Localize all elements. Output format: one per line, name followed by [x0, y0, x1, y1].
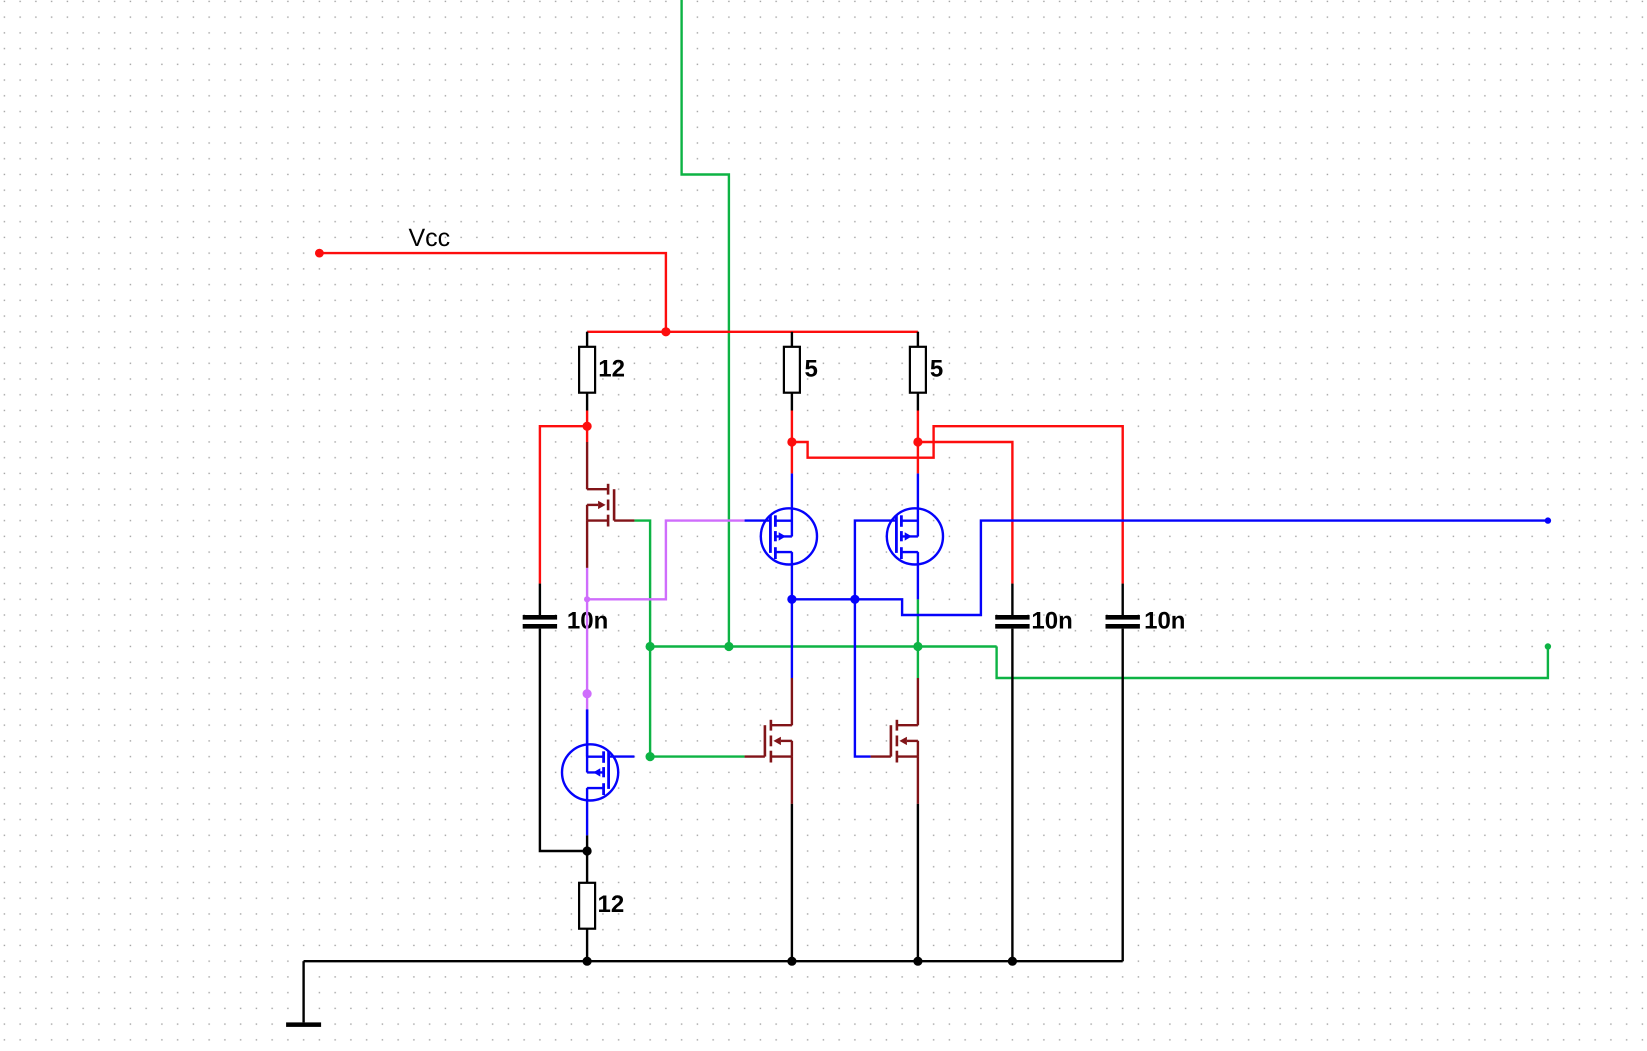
wire: R2 bottom stub: [791, 393, 793, 411]
transistor M4 p-mosfet circled (blue, mirrored): [562, 709, 634, 835]
wire: M5 source to ground rail: [791, 804, 793, 961]
wire: C3 bottom stem joins ground rail: [1121, 629, 1123, 962]
wire: M6 source to ground rail: [917, 804, 919, 961]
wire: blue M1 source to output step to right edge: [792, 521, 1548, 615]
wire: green step to right edge output: [997, 647, 1548, 679]
wire: blue M2 gate bus down to M6 gate: [855, 521, 897, 757]
transistor Q1 n-mosfet (maroon, gate right): [587, 442, 634, 568]
transistor M1 p-mosfet circled (blue): [745, 474, 817, 600]
wire: green input from top edge down and over to node column: [682, 0, 729, 647]
junction green gate bus / M5 gate: [646, 752, 655, 761]
transistor M2 p-mosfet circled (blue): [887, 474, 943, 600]
junction C1 / R4 / M4: [583, 846, 592, 855]
junction blue gate bus: [850, 595, 859, 604]
node blue output terminal: [1545, 517, 1551, 523]
wire: R4 top stub: [586, 851, 588, 883]
wire: blue M1 source node down to M5 drain: [791, 599, 793, 678]
node B junction (R2/M1): [787, 437, 796, 446]
wire: R4 bottom stub: [586, 929, 588, 962]
wire: ground rail: [304, 960, 1123, 962]
wire: C2 top stem: [1011, 584, 1013, 615]
resistor R2 (5): [784, 347, 800, 393]
wire: R3 bottom stub: [917, 393, 919, 411]
junction M5 / ground rail: [787, 957, 796, 966]
resistor R4 (12): [579, 883, 595, 929]
wire: node B to M1 drain stub: [791, 442, 793, 473]
wire: R1 bottom stub: [586, 393, 588, 411]
wire: C2 bottom stem: [1011, 629, 1013, 962]
capacitor C2 (10n): [995, 615, 1029, 620]
transistor M5 n-mosfet (maroon): [745, 678, 792, 804]
junction violet wire joint: [583, 689, 592, 698]
ground symbol: [302, 961, 304, 1022]
junction Vcc corner: [661, 327, 670, 336]
wire: R2 bottom to node B: [791, 411, 793, 443]
wire: C1 top stem: [539, 584, 541, 615]
junction green gate bus / rail: [646, 642, 655, 651]
wire: R1 top stub: [586, 332, 588, 347]
wire: violet Q1 source node down: [586, 568, 588, 694]
resistor R3 (5): [910, 347, 926, 393]
wire: R3 bottom to node C: [917, 411, 919, 443]
node Vcc terminal dot: [315, 249, 324, 258]
svg-text:Vcc: Vcc: [409, 224, 451, 252]
junction green top entry / rail: [724, 642, 733, 651]
wire: green M2 source to M6 drain: [917, 599, 919, 678]
svg-text:12: 12: [598, 355, 625, 382]
wire: Vcc feed: [319, 253, 666, 332]
junction violet Q1 source node: [584, 596, 590, 602]
transistor M6 n-mosfet (maroon): [871, 678, 918, 804]
wire: node B cross-coupling to C3 top: [792, 426, 1123, 583]
wire: node A to Q1 drain: [586, 426, 588, 442]
svg-text:5: 5: [805, 355, 818, 382]
node C junction (R3/M2): [913, 437, 922, 446]
junction M6 / ground rail: [913, 957, 922, 966]
node A junction (R1/C1/Q1): [583, 422, 592, 431]
wire: violet node to M1 gate: [587, 521, 745, 600]
wire: Vcc rail across resistor tops: [587, 331, 918, 333]
wire: green rail at mid height: [650, 645, 997, 647]
capacitor C1 (10n): [523, 615, 557, 620]
wire: green gate bus vertical (Q1 gate down to Q5 gate): [634, 521, 744, 757]
svg-text:5: 5: [930, 355, 943, 382]
junction C2 / ground rail: [1008, 957, 1017, 966]
wire: node C to M2 drain stub: [917, 442, 919, 473]
wire: R2 top stub: [791, 332, 793, 347]
wire: C1 bottom stem down to corner: [540, 629, 587, 851]
wire: node C to C2 top: [918, 442, 1013, 584]
junction blue M1 source: [787, 595, 796, 604]
wire: R3 top stub: [917, 332, 919, 347]
svg-text:10n: 10n: [1144, 607, 1185, 634]
wire: C3 top stem: [1121, 584, 1123, 615]
capacitor C3 (10n): [1106, 615, 1140, 620]
wire: R1 bottom to node A: [586, 411, 588, 427]
junction R4 / ground rail: [583, 957, 592, 966]
wire: violet node to M4 drain: [586, 694, 588, 710]
wire: M4 source to junction: [586, 835, 588, 851]
svg-text:10n: 10n: [1031, 607, 1072, 634]
junction green M2 source / rail: [913, 642, 922, 651]
resistor R1 (12): [579, 347, 595, 393]
svg-text:12: 12: [598, 891, 625, 918]
wire: node A to C1 top: [540, 426, 587, 583]
node green output terminal: [1545, 643, 1551, 649]
